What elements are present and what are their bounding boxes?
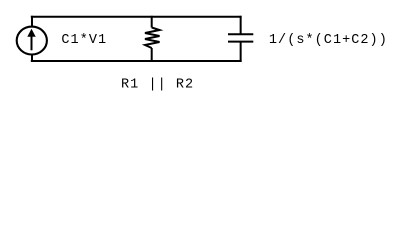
capacitor bottom plate <box>228 41 253 43</box>
current source arrow shaft <box>31 37 33 51</box>
capacitor top lead <box>240 16 242 35</box>
wire bottom <box>31 60 242 62</box>
wire left bottom stub <box>31 53 33 62</box>
wire left top stub <box>31 16 33 28</box>
current source arrow head <box>27 29 35 37</box>
wire top <box>31 16 242 18</box>
resistor bottom lead <box>151 48 153 62</box>
resistor top lead <box>151 16 153 28</box>
capacitor top plate <box>228 33 253 35</box>
svg-text:1/(s*(C1+C2)): 1/(s*(C1+C2)) <box>269 33 388 48</box>
current source circle <box>17 27 47 55</box>
svg-text:C1*V1: C1*V1 <box>61 33 107 48</box>
svg-text:R1 || R2: R1 || R2 <box>121 78 194 93</box>
capacitor bottom lead <box>240 42 242 62</box>
resistor zigzag <box>145 28 160 49</box>
